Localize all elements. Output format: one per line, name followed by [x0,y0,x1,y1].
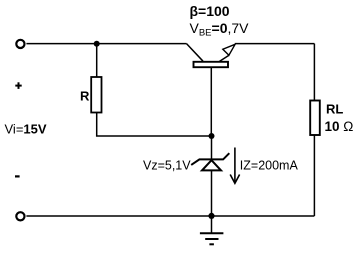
wire: RL bottom to bottom rail [313,135,315,216]
wire: resistor R bottom to base node [97,113,212,137]
label + polarity [15,82,21,89]
wire: top rail from input terminal to transistor collector [26,43,186,45]
svg-text:RL: RL [326,101,343,116]
wire: junction down to resistor R [96,44,98,78]
ground bar 3 [209,243,214,245]
transistor Q1 base lead down [210,67,212,136]
wire: emitter to top-right rail [235,43,315,45]
input terminal bottom-left (-) [16,212,24,220]
svg-text:IZ=200mA: IZ=200mA [240,159,299,173]
IZ current arrow [234,148,236,182]
resistor R [91,77,101,113]
input terminal top-left (+) [16,40,24,48]
ground lead [211,216,213,233]
node: ground junction [208,213,214,219]
zener diode cathode lead [211,136,213,159]
transistor Q1 emitter lead [219,55,229,62]
svg-text:R: R [80,89,90,104]
wire: zener anode down to bottom rail [211,170,213,216]
svg-text:10 Ω: 10 Ω [325,119,354,134]
wire: top-right corner down to RL [313,44,315,101]
svg-text:Vz=5,1V: Vz=5,1V [143,159,191,173]
wire: bottom rail [26,215,314,217]
transistor Q1 emitter arrowhead [223,44,235,55]
svg-text:Vi=15V: Vi=15V [5,122,47,137]
svg-text:VBE=0,7V: VBE=0,7V [190,20,250,39]
node: top rail / R branch junction [94,41,100,47]
ground bar 2 [205,238,218,240]
svg-text:β=100: β=100 [190,3,230,19]
label - polarity [15,175,20,177]
transistor Q1 collector lead [187,44,204,62]
node: base / zener junction [209,133,215,139]
resistor RL [310,101,320,136]
transistor Q1 base bar [194,62,229,67]
zener diode cathode bar with bent tails [191,153,229,165]
ground bar 1 [200,232,224,234]
zener diode anode triangle [202,160,221,170]
